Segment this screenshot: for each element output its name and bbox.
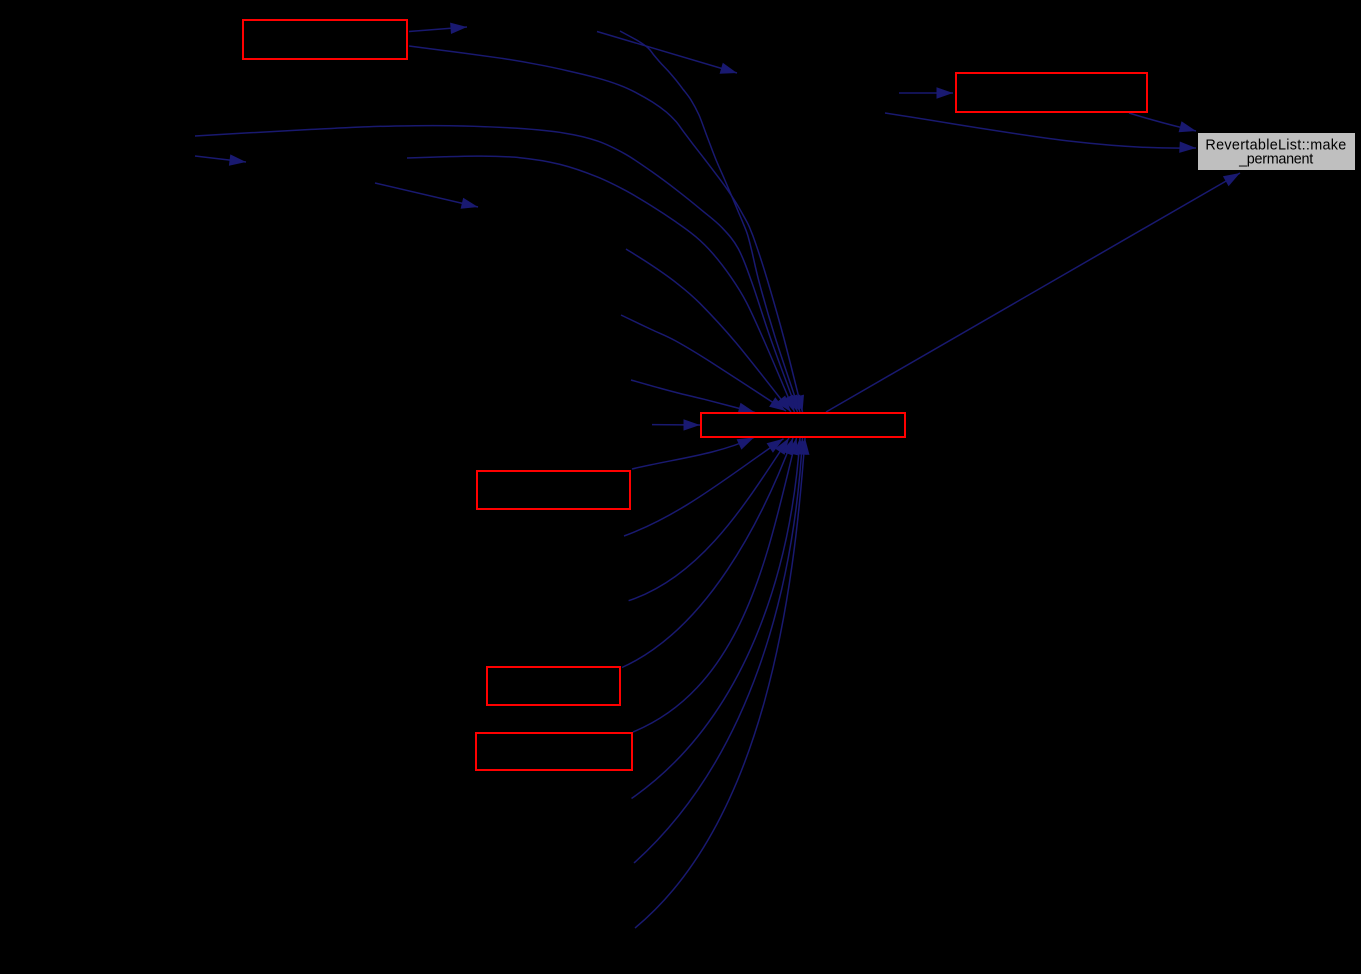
svg-text:_permanent: _permanent xyxy=(1238,152,1313,168)
